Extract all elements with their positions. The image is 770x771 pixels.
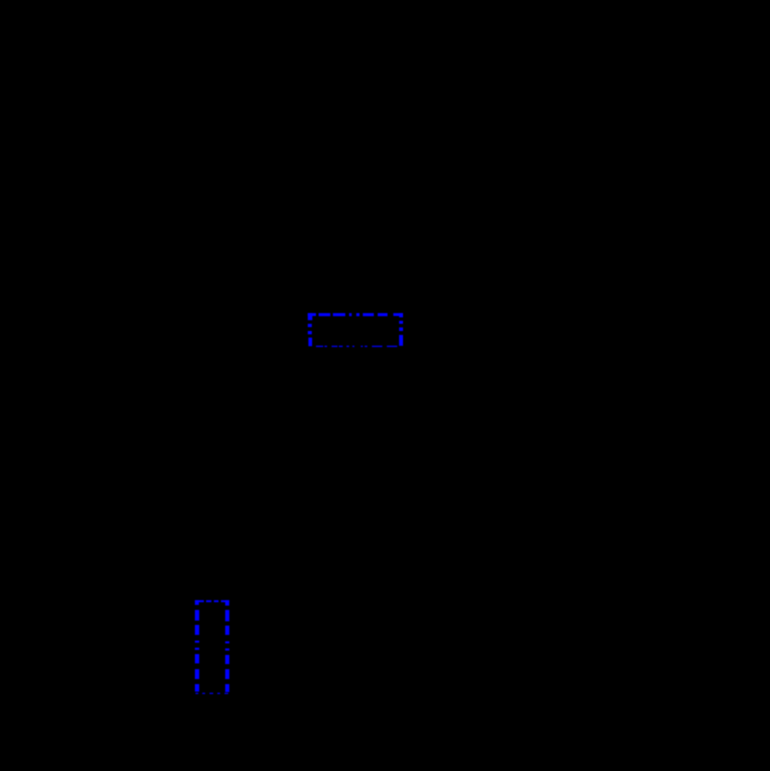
annotation box 1 (dashed blue highlight rectangle, upper) — [308, 313, 403, 347]
box2 bottom edge dashes (thin, dimmer) — [196, 693, 229, 694]
box1 top edge dashes — [308, 313, 403, 320]
box1 left edge dashes — [308, 324, 312, 346]
box1 bottom edge dashes (thin, dimmer) — [316, 346, 397, 348]
box2 right edge dashes — [225, 610, 229, 692]
box1 right edge dashes — [399, 321, 403, 346]
annotation box 2 (dashed blue highlight rectangle, lower-left) — [195, 600, 229, 694]
box2 top edge dashes — [195, 600, 229, 605]
box2 left edge dashes — [195, 610, 199, 692]
